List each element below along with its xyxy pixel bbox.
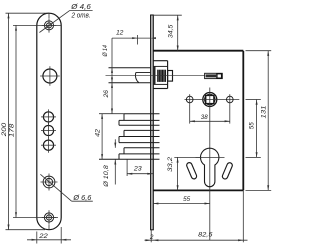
svg-text:178: 178	[9, 123, 16, 137]
svg-text:55: 55	[183, 196, 190, 203]
svg-text:Ø 10,8: Ø 10,8	[103, 165, 110, 188]
svg-text:23: 23	[133, 166, 142, 173]
svg-text:200: 200	[1, 122, 8, 137]
svg-text:38: 38	[201, 114, 208, 121]
svg-text:26: 26	[103, 90, 110, 99]
svg-text:2 отв.: 2 отв.	[71, 11, 91, 20]
svg-text:2: 2	[149, 234, 154, 241]
svg-text:22: 22	[38, 233, 48, 240]
svg-text:34,5: 34,5	[168, 24, 175, 38]
svg-text:12: 12	[116, 30, 124, 37]
svg-text:Ø 14: Ø 14	[102, 45, 109, 57]
svg-text:Ø 4,6: Ø 4,6	[70, 2, 92, 11]
svg-text:42: 42	[95, 129, 102, 137]
svg-text:131: 131	[261, 105, 268, 118]
svg-text:Ø 6,6: Ø 6,6	[72, 193, 92, 202]
svg-text:55: 55	[248, 122, 255, 129]
svg-text:33,2: 33,2	[167, 157, 174, 172]
svg-text:82,5: 82,5	[198, 232, 212, 239]
